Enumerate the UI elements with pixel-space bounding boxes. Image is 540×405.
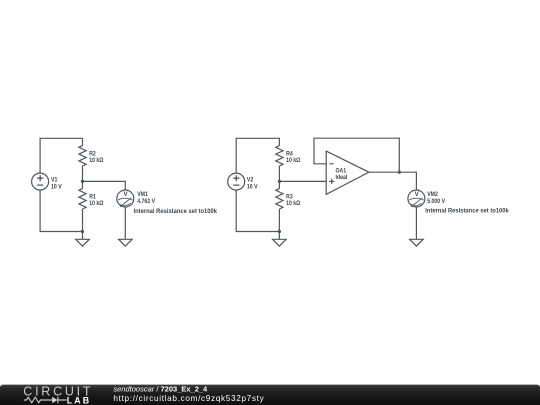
svg-text:10 kΩ: 10 kΩ bbox=[89, 200, 103, 207]
svg-text:10 V: 10 V bbox=[51, 184, 62, 191]
svg-text:Internal Resistance set to100k: Internal Resistance set to100k bbox=[134, 208, 218, 215]
svg-text:5.000 V: 5.000 V bbox=[427, 199, 445, 206]
svg-text:LAB: LAB bbox=[67, 396, 91, 405]
svg-text:sendtooscar / 7203_Ex_2_4: sendtooscar / 7203_Ex_2_4 bbox=[113, 385, 208, 394]
svg-text:10 kΩ: 10 kΩ bbox=[286, 200, 300, 207]
svg-text:V1: V1 bbox=[51, 177, 58, 184]
svg-text:Ideal: Ideal bbox=[336, 174, 348, 181]
svg-text:10 kΩ: 10 kΩ bbox=[89, 157, 103, 164]
svg-text:V2: V2 bbox=[247, 177, 254, 184]
svg-text:10 kΩ: 10 kΩ bbox=[286, 157, 300, 164]
svg-text:VM2: VM2 bbox=[427, 192, 438, 199]
svg-text:10 V: 10 V bbox=[247, 184, 258, 191]
svg-text:Internal Resistance set to100k: Internal Resistance set to100k bbox=[425, 207, 509, 214]
svg-text:VM1: VM1 bbox=[137, 192, 148, 199]
svg-text:http://circuitlab.com/c9zqk532: http://circuitlab.com/c9zqk532p7sty bbox=[113, 394, 264, 403]
svg-text:4.762 V: 4.762 V bbox=[137, 199, 155, 206]
